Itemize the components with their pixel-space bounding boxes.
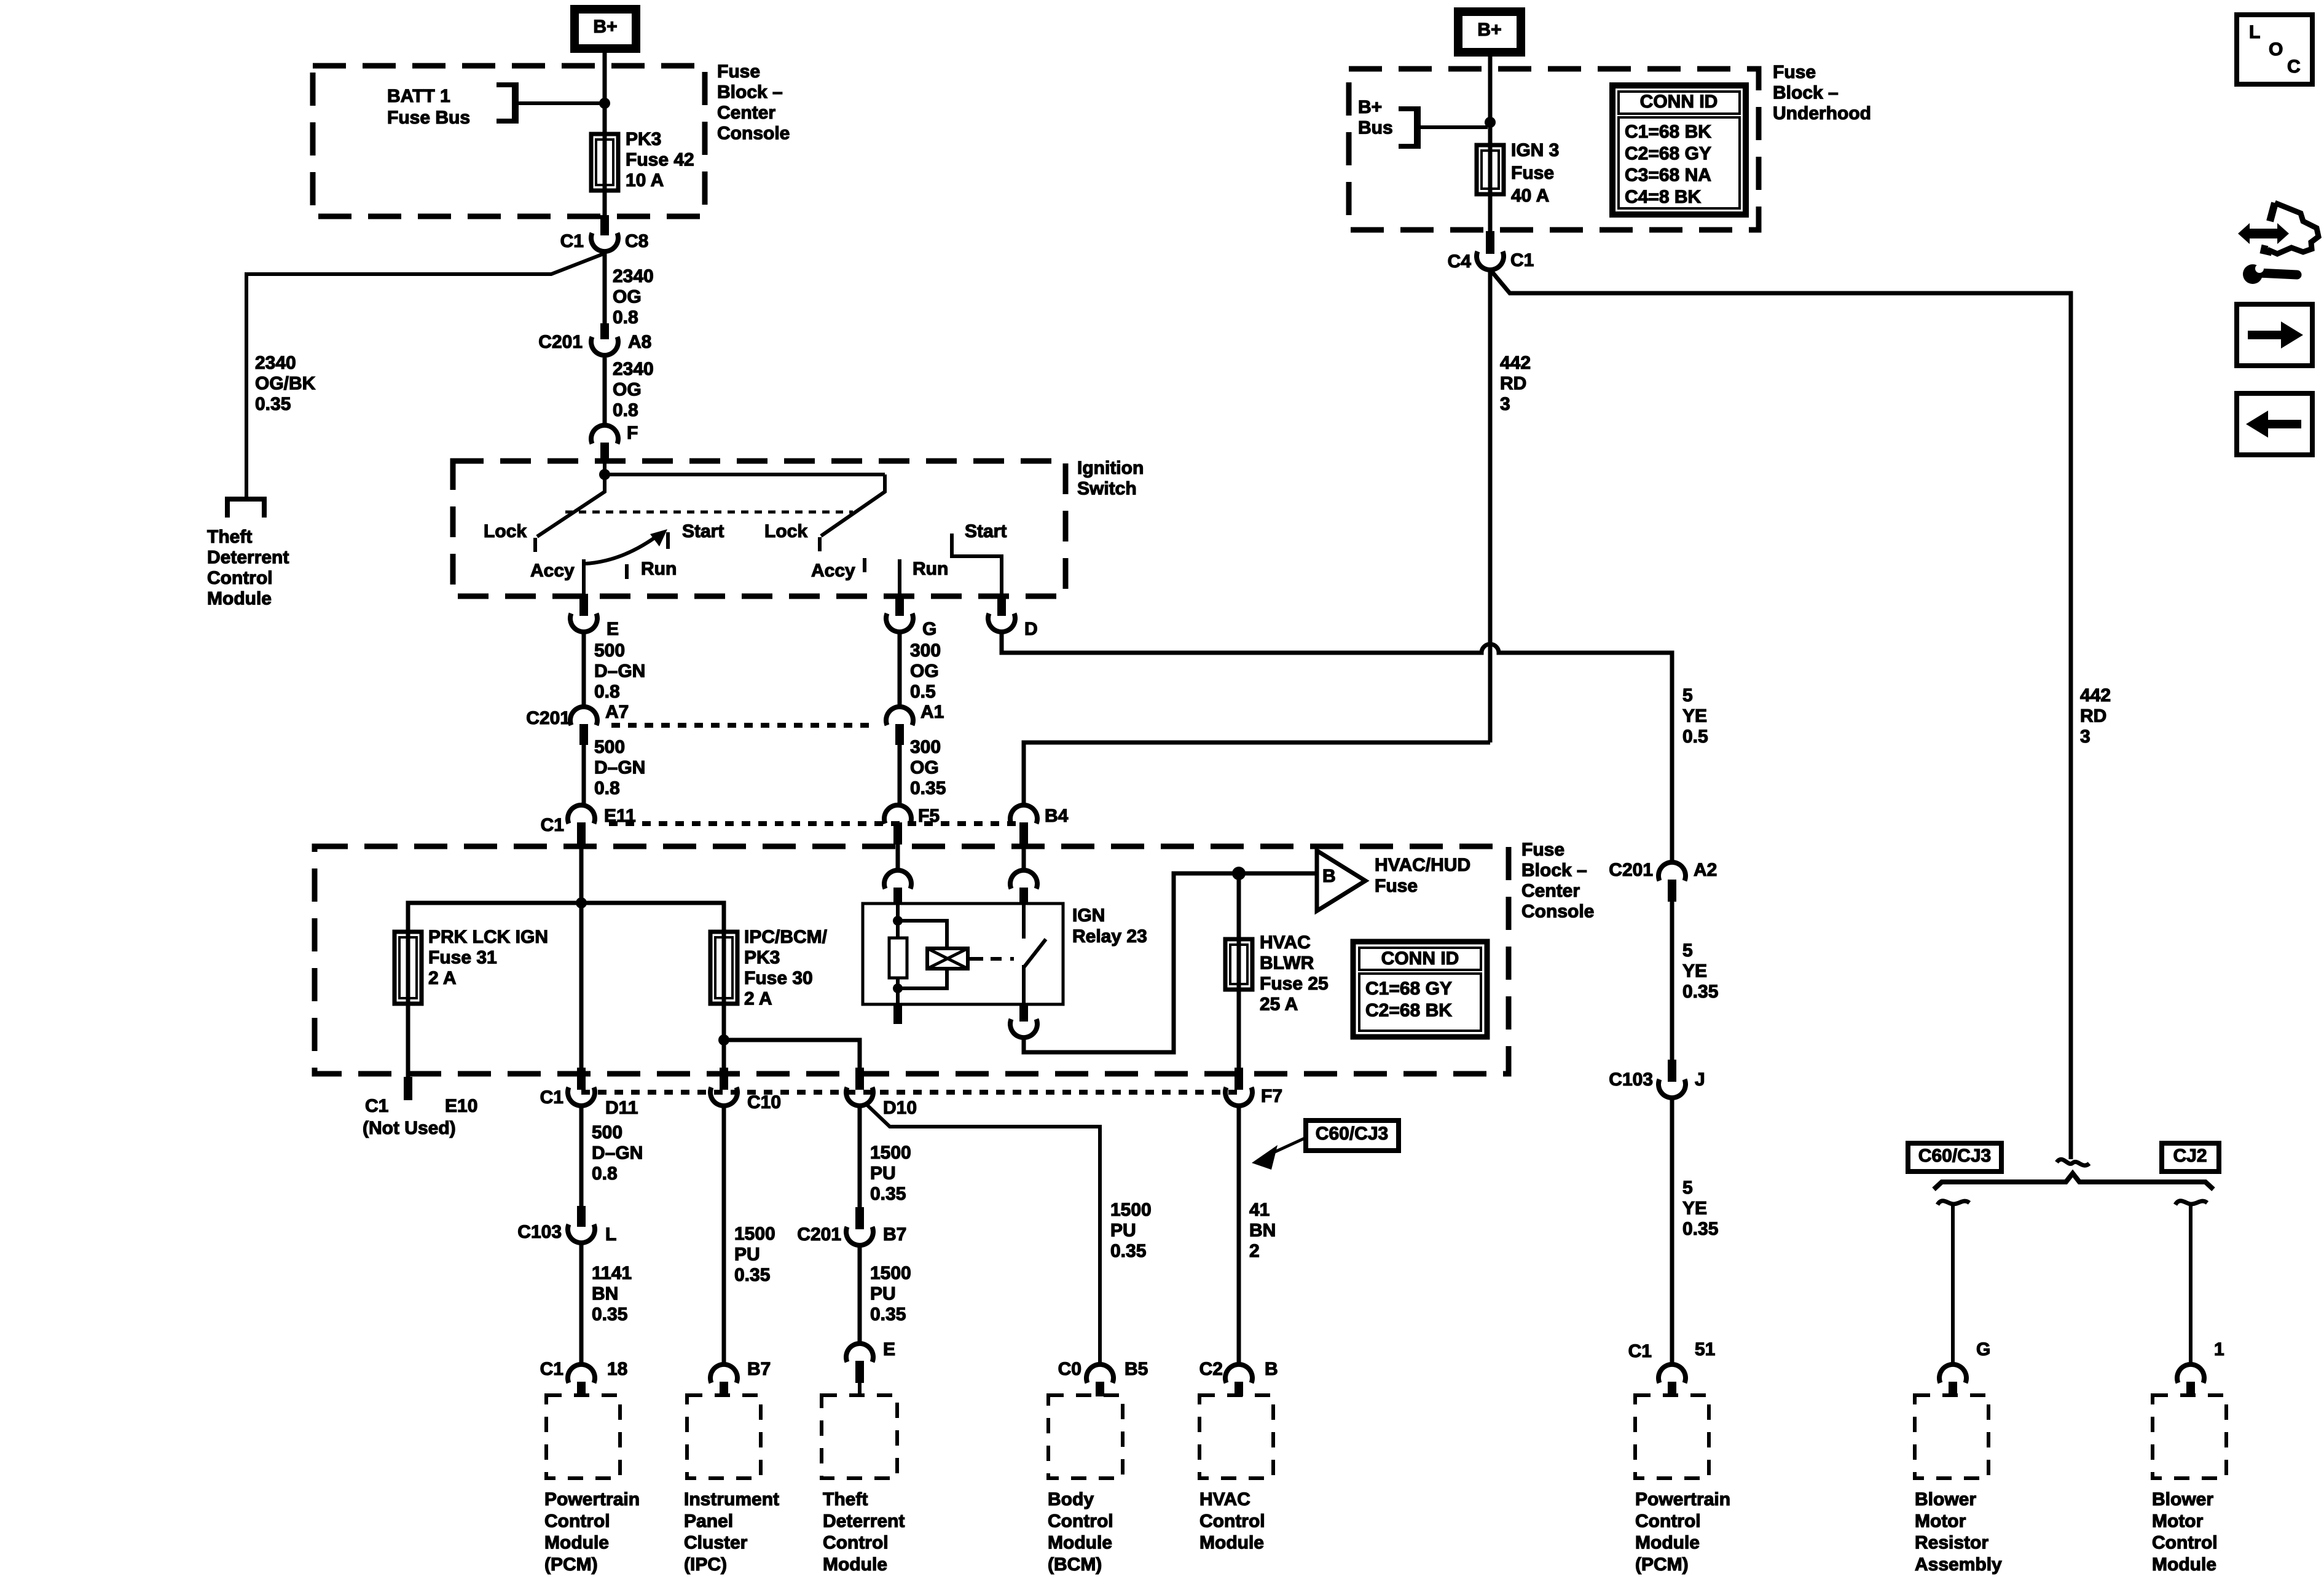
wire to blower motor resistor: [1951, 1206, 1955, 1364]
svg-text:25 A: 25 A: [1260, 994, 1298, 1015]
connector D stub: [997, 594, 1006, 616]
svg-text:Console: Console: [1521, 902, 1594, 922]
connector B4 stub: [1019, 822, 1028, 845]
module box Instrument Panel Cluster: [687, 1395, 761, 1478]
wire D to right feed (with hop over 442 RD): [1002, 632, 1672, 862]
svg-text:1: 1: [2214, 1339, 2224, 1360]
wire 500 D-GN 0.8 (second): [582, 745, 586, 806]
svg-text:Control: Control: [1635, 1511, 1701, 1531]
wire E11 column through block: [579, 903, 584, 1069]
svg-text:C10: C10: [747, 1092, 781, 1112]
branch wire 2340 OG/BK 0.35 to theft module: [246, 254, 603, 499]
svg-text:Blower: Blower: [1915, 1489, 1976, 1510]
wire 500 D-GN 0.8 (upper): [582, 632, 586, 707]
svg-text:YE: YE: [1682, 1199, 1707, 1219]
connector C103/L: [568, 1224, 595, 1243]
svg-text:Control: Control: [823, 1533, 889, 1553]
module box Blower Motor Control Module: [2153, 1395, 2226, 1478]
svg-text:0.35: 0.35: [255, 394, 291, 414]
svg-text:10 A: 10 A: [626, 170, 664, 191]
svg-text:5: 5: [1682, 940, 1693, 961]
svg-text:RD: RD: [1500, 374, 1526, 394]
svg-text:PU: PU: [870, 1284, 896, 1304]
svg-text:Bus: Bus: [1358, 118, 1393, 138]
fuse IGN 3 Fuse 40 A: [1477, 145, 1504, 194]
svg-text:Switch: Switch: [1077, 479, 1137, 499]
svg-text:Run: Run: [913, 559, 948, 579]
svg-text:CONN ID: CONN ID: [1381, 948, 1459, 969]
wire 300 OG 0.5: [898, 632, 902, 707]
svg-text:Module: Module: [1199, 1533, 1264, 1553]
wire 500 D-GN 0.8 (lower): [579, 1106, 584, 1210]
svg-text:B4: B4: [1045, 806, 1069, 826]
svg-text:Block –: Block –: [1521, 860, 1587, 881]
switch linkage bar: [605, 473, 885, 476]
splice brace to C60/CJ3 and CJ2: [1934, 1173, 2213, 1189]
connector C1/51: [1659, 1364, 1686, 1383]
switch arm left (to Lock): [537, 474, 605, 537]
svg-text:Fuse: Fuse: [1511, 163, 1554, 183]
module box HVAC Control Module: [1199, 1395, 1273, 1478]
navigation icon (double arrow): [2238, 223, 2289, 244]
svg-text:YE: YE: [1682, 706, 1707, 726]
svg-text:3: 3: [2080, 726, 2090, 747]
svg-text:Relay 23: Relay 23: [1072, 926, 1147, 947]
svg-text:1500: 1500: [734, 1224, 775, 1244]
svg-text:Fuse 42: Fuse 42: [626, 150, 694, 170]
wire 5 YE 0.35 (upper): [1670, 902, 1674, 1063]
svg-text:2340: 2340: [613, 359, 654, 379]
svg-text:C1: C1: [540, 1087, 563, 1108]
svg-text:PRK LCK IGN: PRK LCK IGN: [428, 927, 548, 947]
connector C0/B5 stub: [1096, 1382, 1104, 1396]
svg-text:40 A: 40 A: [1511, 186, 1549, 206]
svg-text:J: J: [1695, 1069, 1705, 1090]
svg-text:500: 500: [594, 737, 625, 757]
junction dot bus/E11: [576, 897, 587, 908]
wire B4 to relay switch: [1022, 845, 1026, 870]
svg-text:Control: Control: [1199, 1511, 1265, 1531]
svg-text:0.35: 0.35: [1682, 982, 1718, 1002]
bus wire fuse31-fuse30: [408, 903, 724, 932]
relay socket connector (switch) stub: [1019, 888, 1028, 905]
svg-text:0.35: 0.35: [870, 1184, 906, 1204]
svg-text:Module: Module: [207, 589, 272, 609]
CONN ID table (center console): [1353, 942, 1487, 1037]
svg-text:Deterrent: Deterrent: [823, 1511, 905, 1531]
svg-text:Resistor: Resistor: [1915, 1533, 1988, 1553]
svg-text:Powertrain: Powertrain: [544, 1489, 640, 1510]
right Accy contact tick: [863, 558, 866, 572]
connector C201/A2 stub: [1668, 880, 1676, 902]
svg-text:3: 3: [1500, 394, 1510, 414]
connector G (blower resistor): [1939, 1364, 1966, 1383]
svg-text:0.35: 0.35: [592, 1304, 627, 1325]
wire B+ to underhood fuse block: [1488, 52, 1493, 145]
svg-text:51: 51: [1695, 1339, 1715, 1360]
right Start contact tick and wire to D: [952, 534, 1002, 595]
fuse block - underhood dashed box: [1349, 69, 1759, 230]
navigation icon (connector outline): [2267, 203, 2318, 254]
fuse HVAC BLWR Fuse 25 25 A: [1225, 939, 1252, 990]
svg-text:Lock: Lock: [484, 521, 527, 541]
svg-text:2340: 2340: [613, 266, 654, 286]
connector E stub: [579, 594, 588, 616]
wire D10 to BCM 1500 PU 0.35: [865, 1103, 1100, 1364]
wire fuse PK3 to connector C1/C8: [603, 191, 607, 216]
junction dot ignition feed: [599, 469, 610, 480]
relay coil junction dot (bottom): [893, 983, 903, 993]
svg-text:HVAC: HVAC: [1260, 932, 1311, 953]
svg-text:1500: 1500: [1110, 1200, 1152, 1220]
svg-text:0.35: 0.35: [910, 778, 946, 798]
wire 300 OG 0.35: [898, 745, 902, 806]
connector A1 stub: [895, 724, 904, 745]
svg-text:CONN ID: CONN ID: [1640, 92, 1718, 112]
wire fuse30 down: [722, 1004, 726, 1069]
svg-text:Fuse 25: Fuse 25: [1260, 974, 1329, 994]
svg-text:HVAC/HUD: HVAC/HUD: [1375, 855, 1470, 875]
CONN ID table (underhood): [1612, 85, 1746, 215]
connector C10: [710, 1087, 737, 1106]
svg-text:C1: C1: [541, 815, 564, 835]
junction dot BATT1 bus: [599, 98, 610, 109]
relay coil to armature link: [968, 957, 983, 961]
connector F7 stub: [1235, 1068, 1243, 1090]
svg-text:C4: C4: [1448, 251, 1472, 272]
svg-text:Body: Body: [1048, 1489, 1094, 1510]
svg-text:B+: B+: [1358, 97, 1382, 117]
connector C4/C1 stub: [1486, 231, 1494, 254]
junction dot HVAC BLWR feed: [1232, 867, 1246, 880]
switch arm right (to Lock): [821, 474, 885, 536]
svg-text:18: 18: [607, 1359, 627, 1379]
svg-text:442: 442: [1500, 353, 1531, 373]
connector G: [886, 613, 913, 632]
connector C1/D11 stub: [577, 1068, 586, 1090]
wire F7 to HVAC 41 BN 2: [1237, 1106, 1241, 1364]
svg-text:Module: Module: [1635, 1533, 1700, 1553]
dotted row A7-A1: [611, 723, 873, 728]
relay coil junction dot (top): [893, 916, 903, 926]
relay coil (solenoid box with X): [927, 948, 968, 969]
B+ Bus terminal bracket (right): [1399, 109, 1418, 146]
connector C1/18: [568, 1364, 595, 1383]
switch linkage dotted line: [565, 511, 853, 514]
svg-text:(PCM): (PCM): [1635, 1554, 1689, 1575]
svg-text:Center: Center: [1521, 881, 1580, 901]
svg-text:A1: A1: [921, 702, 944, 722]
svg-text:C3=68 NA: C3=68 NA: [1625, 165, 1711, 186]
svg-text:41: 41: [1249, 1200, 1270, 1220]
theft deterrent module terminal bracket: [227, 499, 264, 518]
svg-text:2: 2: [1249, 1241, 1260, 1261]
svg-text:Blower: Blower: [2152, 1489, 2213, 1510]
wire 442 RD to B4: [1024, 742, 1490, 806]
wire B+ Bus bracket to bus: [1418, 125, 1488, 129]
svg-text:A2: A2: [1694, 860, 1717, 880]
connector 1 (blower control): [2177, 1364, 2204, 1383]
svg-text:Motor: Motor: [1915, 1511, 1966, 1531]
wire 2340 OG 0.8 (upper): [603, 251, 607, 325]
relay output stub: [1019, 1004, 1028, 1022]
connector G stub: [895, 594, 904, 616]
svg-text:Block –: Block –: [717, 82, 783, 103]
svg-text:C1: C1: [365, 1096, 388, 1116]
module box Blower Motor Resistor Assembly: [1915, 1395, 1988, 1478]
harness break at 442 RD end: [2057, 1159, 2089, 1165]
relay armature dashed link: [991, 957, 1014, 961]
svg-text:Fuse: Fuse: [717, 61, 760, 82]
connector F: [591, 425, 618, 444]
connector C1/C8: [591, 233, 618, 251]
svg-text:0.35: 0.35: [1682, 1219, 1718, 1239]
connector C201/A8 stub: [600, 323, 609, 339]
svg-text:D11: D11: [605, 1098, 638, 1118]
svg-text:D: D: [1024, 619, 1038, 639]
svg-text:C0: C0: [1058, 1359, 1082, 1379]
svg-text:OG: OG: [613, 380, 642, 400]
dotted row E11-F5-B4: [609, 821, 1024, 826]
svg-text:D–GN: D–GN: [592, 1143, 643, 1164]
svg-text:Run: Run: [641, 559, 677, 579]
wire relay feed to fuse 25: [1237, 873, 1241, 939]
svg-text:0.35: 0.35: [734, 1265, 770, 1285]
branch wire fuse30 to D10: [724, 1040, 860, 1069]
svg-text:0.8: 0.8: [594, 682, 620, 702]
svg-text:C1=68 BK: C1=68 BK: [1625, 122, 1711, 142]
svg-text:HVAC: HVAC: [1199, 1489, 1250, 1510]
module box Body Control Module: [1048, 1395, 1123, 1478]
svg-text:PU: PU: [734, 1245, 760, 1265]
svg-text:B7: B7: [883, 1224, 906, 1245]
svg-text:BN: BN: [1249, 1221, 1276, 1241]
svg-text:B5: B5: [1125, 1359, 1148, 1379]
svg-text:Fuse: Fuse: [1375, 876, 1418, 896]
svg-text:C1: C1: [540, 1359, 563, 1379]
callout box CJ2: [2162, 1143, 2219, 1171]
connector C1/E11 stub: [577, 822, 586, 845]
svg-text:C1: C1: [1510, 250, 1534, 270]
harness break at blower resistor drop: [1937, 1201, 1969, 1205]
svg-text:500: 500: [594, 640, 625, 661]
connector C201/B7 stub: [855, 1207, 864, 1229]
svg-text:C201: C201: [1609, 860, 1653, 880]
svg-text:1500: 1500: [870, 1143, 911, 1163]
wire IGN3 fuse to C4/C1: [1488, 194, 1493, 234]
svg-text:442: 442: [2080, 685, 2111, 706]
callout box C60/CJ3 (at F7): [1306, 1120, 1399, 1151]
branch wire 442 RD 3 (to blower feed): [1491, 271, 2071, 1159]
svg-text:Fuse: Fuse: [1773, 62, 1816, 82]
svg-text:B+: B+: [593, 17, 617, 37]
connector D10 stub: [855, 1068, 864, 1090]
connector C103/J: [1659, 1079, 1686, 1098]
svg-text:Module: Module: [823, 1554, 887, 1575]
svg-text:Start: Start: [682, 521, 724, 541]
svg-text:0.5: 0.5: [910, 682, 936, 702]
svg-text:Theft: Theft: [823, 1489, 868, 1510]
svg-text:Deterrent: Deterrent: [207, 548, 289, 568]
relay switch arm: [1024, 939, 1046, 967]
wire into ignition switch: [603, 461, 607, 477]
svg-text:C2=68 BK: C2=68 BK: [1365, 1000, 1452, 1020]
svg-text:IPC/BCM/: IPC/BCM/: [744, 927, 828, 947]
connector C4/C1: [1477, 251, 1504, 270]
svg-text:5: 5: [1682, 685, 1693, 706]
svg-text:Cluster: Cluster: [684, 1533, 748, 1553]
navigation icon (wrench): [2243, 264, 2263, 284]
wire 442 RD 3 (main drop): [1488, 270, 1493, 742]
svg-text:Block –: Block –: [1773, 83, 1839, 103]
ignition switch dashed box: [453, 461, 1066, 596]
left Run contact tick: [625, 564, 629, 579]
connector A1: [886, 707, 913, 725]
wire B+ to fuse block (left): [603, 51, 607, 134]
svg-text:0.8: 0.8: [594, 778, 620, 798]
svg-text:IGN 3: IGN 3: [1511, 140, 1559, 160]
fuse PRK LCK IGN Fuse 31 2 A: [395, 932, 422, 1004]
svg-text:B: B: [1322, 866, 1336, 886]
svg-text:0.35: 0.35: [870, 1304, 906, 1325]
svg-text:Start: Start: [965, 521, 1007, 541]
connector E: [570, 613, 597, 632]
svg-text:Accy: Accy: [530, 561, 575, 581]
svg-text:Lock: Lock: [764, 521, 807, 541]
svg-text:C201: C201: [797, 1224, 841, 1245]
svg-text:C60/CJ3: C60/CJ3: [1918, 1146, 1991, 1166]
HVAC/HUD Fuse off-page triangle: [1317, 851, 1365, 911]
right Lock contact tick: [818, 537, 822, 551]
connector B4: [1010, 805, 1037, 824]
svg-text:C1=68 GY: C1=68 GY: [1365, 979, 1452, 999]
svg-text:E: E: [607, 619, 619, 639]
wire 5 YE 0.35 (lower): [1670, 1098, 1674, 1364]
callout box C60/CJ3 (blower): [1908, 1143, 2001, 1171]
svg-text:F: F: [627, 423, 638, 443]
connector D: [988, 613, 1015, 632]
svg-text:IGN: IGN: [1072, 905, 1105, 926]
svg-text:C8: C8: [625, 231, 648, 251]
connector E (theft): [846, 1344, 873, 1362]
connector C103/J stub: [1668, 1060, 1676, 1082]
svg-text:Module: Module: [1048, 1533, 1112, 1553]
svg-text:C2: C2: [1199, 1359, 1223, 1379]
svg-text:300: 300: [910, 737, 941, 757]
svg-text:C103: C103: [517, 1222, 562, 1242]
connector C201/A2: [1659, 862, 1686, 881]
power symbol B+ (left): [575, 9, 636, 49]
terminal E10 stub (not used): [404, 1077, 412, 1100]
wire fuse25 to F7: [1237, 990, 1241, 1069]
connector 1 stub: [2186, 1382, 2195, 1396]
svg-text:D–GN: D–GN: [594, 661, 645, 682]
connector C10 stub: [720, 1068, 728, 1090]
wire 1500 PU 0.35 (theft lower): [858, 1245, 862, 1344]
svg-text:O: O: [2269, 39, 2283, 60]
svg-text:A7: A7: [605, 702, 629, 722]
relay coil parallel loop: [898, 921, 947, 948]
svg-text:Control: Control: [544, 1511, 610, 1531]
fuse block - center console (lower) dashed box: [315, 846, 1509, 1074]
svg-text:OG: OG: [910, 758, 939, 778]
svg-text:Module: Module: [544, 1533, 609, 1553]
relay switch lower contact: [1022, 965, 1026, 1004]
connector B7 (IPC): [710, 1364, 737, 1383]
power symbol B+ (right): [1458, 12, 1521, 52]
svg-text:B: B: [1265, 1359, 1278, 1379]
svg-text:0.8: 0.8: [613, 307, 638, 328]
svg-text:0.8: 0.8: [613, 400, 638, 420]
svg-text:Underhood: Underhood: [1773, 103, 1871, 124]
relay switch fixed contact: [1022, 905, 1026, 939]
svg-text:PK3: PK3: [744, 948, 780, 968]
rotation arc arrow (left switch): [586, 537, 656, 564]
svg-text:C: C: [2287, 57, 2301, 77]
svg-text:CJ2: CJ2: [2173, 1146, 2207, 1166]
svg-text:L: L: [2249, 22, 2260, 42]
svg-text:0.5: 0.5: [1682, 726, 1708, 747]
connector C201/A7: [570, 707, 597, 725]
svg-text:2340: 2340: [255, 353, 296, 373]
forward arrow box: [2237, 304, 2312, 366]
svg-text:1141: 1141: [592, 1263, 632, 1283]
relay coil feed wire: [896, 905, 900, 938]
svg-text:0.35: 0.35: [1110, 1241, 1146, 1261]
connector C2/B stub: [1235, 1382, 1243, 1396]
back arrow box: [2237, 393, 2312, 455]
svg-text:Instrument: Instrument: [684, 1489, 779, 1510]
svg-text:C1: C1: [1628, 1341, 1652, 1361]
wire fuse31 to E10: [406, 1004, 410, 1081]
svg-text:Ignition: Ignition: [1077, 458, 1144, 478]
left pole wire (Accy-Run): [582, 559, 586, 595]
svg-text:500: 500: [592, 1122, 622, 1143]
svg-text:YE: YE: [1682, 961, 1707, 982]
connector C1/E11: [568, 805, 595, 824]
relay IGN Relay 23 box: [863, 904, 1063, 1004]
connector F7: [1225, 1087, 1252, 1106]
connector C1/C8 stub: [600, 215, 609, 235]
junction dot fuse30 branch: [718, 1034, 729, 1045]
svg-text:C2=68 GY: C2=68 GY: [1625, 143, 1711, 163]
junction dot B+ bus (right): [1485, 117, 1496, 128]
svg-text:BLWR: BLWR: [1260, 953, 1314, 974]
svg-text:OG/BK: OG/BK: [255, 374, 316, 394]
BATT 1 Fuse Bus terminal bracket: [497, 85, 516, 121]
connector C1/51 stub: [1668, 1382, 1676, 1396]
module box Powertrain Control Module (left): [546, 1395, 620, 1478]
relay socket connector (switch): [1010, 870, 1037, 889]
svg-text:(Not Used): (Not Used): [363, 1118, 456, 1138]
svg-text:E: E: [883, 1339, 895, 1360]
connector E (theft) stub: [855, 1361, 864, 1383]
connector C201/B7: [846, 1227, 873, 1245]
wire 1141 BN 0.35: [579, 1243, 584, 1364]
relay output connector: [1010, 1019, 1037, 1038]
svg-text:Control: Control: [207, 568, 273, 588]
fuse IPC/BCM/PK3 Fuse 30 2 A: [710, 932, 737, 1004]
relay resistor lower wire: [896, 978, 900, 1004]
svg-text:G: G: [1976, 1339, 1990, 1360]
relay socket connector (coil) stub: [893, 888, 902, 905]
svg-text:BN: BN: [592, 1284, 618, 1304]
left Lock contact tick: [533, 538, 537, 552]
fuse block - center console (top) dashed box: [313, 66, 705, 216]
left Start contact tick: [666, 532, 670, 549]
connector G stub: [1949, 1382, 1957, 1396]
svg-text:Panel: Panel: [684, 1511, 733, 1531]
